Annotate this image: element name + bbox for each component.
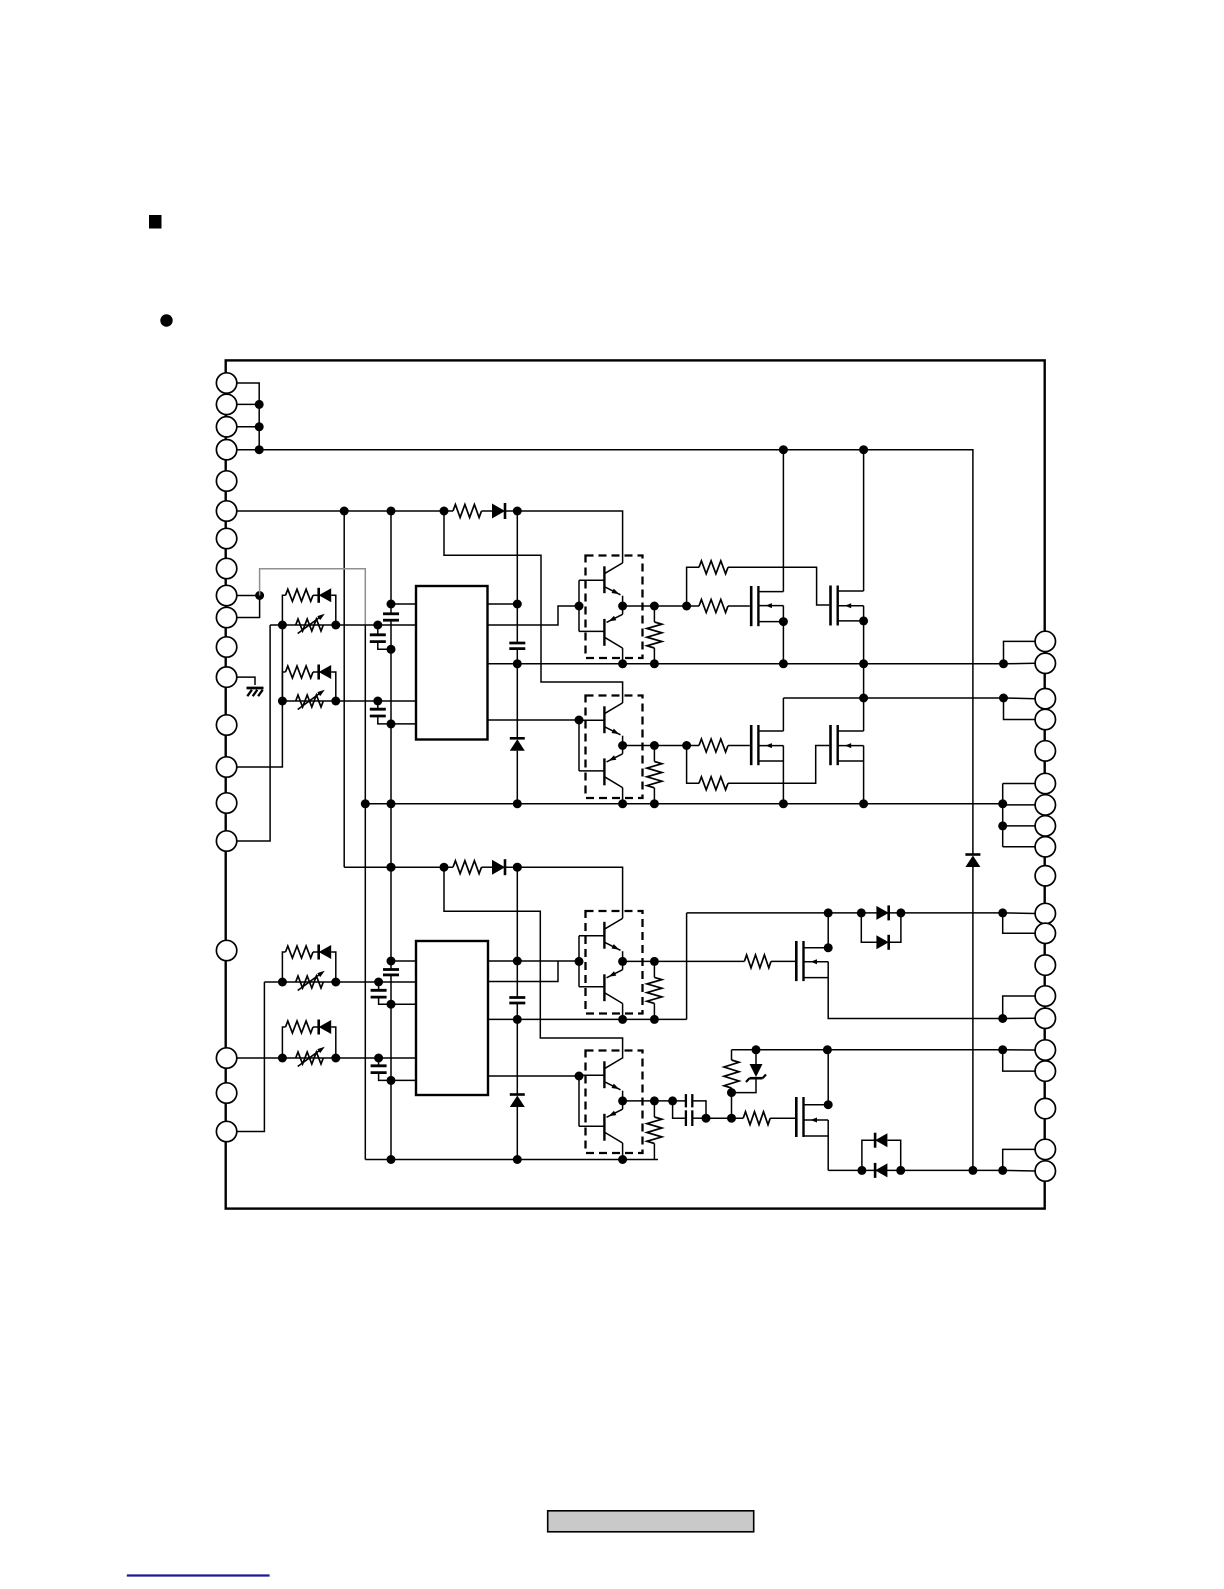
wire IC2 pin R1	[488, 960, 579, 962]
node rail1019 x622.6	[618, 1015, 627, 1024]
pin P39 right connector	[1035, 1139, 1055, 1159]
ground symbol	[247, 688, 264, 696]
resistor R14 bleed box3	[653, 961, 655, 977]
wire pin14 riser x282	[237, 625, 283, 767]
wire pin4 supply rail y450	[237, 450, 973, 854]
pin P36 right connector	[1035, 1040, 1055, 1060]
node row1170 x900.7	[896, 1166, 905, 1175]
node pin2 bus junction	[255, 400, 264, 409]
resistor R6 bleed box1	[653, 606, 655, 622]
node row913 x900.9	[896, 908, 905, 917]
node zener-res junction	[727, 1088, 736, 1097]
node supply-M2 drain junction	[859, 445, 868, 454]
section heading square bullet	[149, 215, 162, 229]
diode D12 inline row913	[876, 906, 888, 920]
node rail804 x365.3	[361, 799, 370, 808]
footer gray box	[548, 1511, 754, 1532]
node row1170 x972.9	[968, 1166, 977, 1175]
wire pin1 to bus	[237, 383, 260, 450]
wire bus to pin 783	[1003, 783, 1035, 785]
pin P10 left connector	[216, 607, 236, 627]
node out2 x687	[682, 741, 691, 750]
wire pin12 to ground	[237, 677, 255, 685]
wire IC2 pin L1	[391, 960, 416, 962]
wire VR4 right bracket	[331, 1027, 336, 1058]
resistor R3	[286, 946, 314, 958]
pin P18 left connector	[216, 1048, 236, 1068]
pin P19 left connector	[216, 1083, 236, 1103]
wire M7 drain up	[827, 1050, 829, 1105]
node out2 x654	[650, 741, 659, 750]
wire M2 drain up	[863, 450, 865, 591]
node box3 base input	[575, 957, 584, 966]
diode D14 inline row1170	[875, 1163, 887, 1177]
wire row982	[264, 981, 416, 983]
node row1170 x861.9	[857, 1166, 866, 1175]
node x391 y604	[387, 600, 396, 609]
wire phase row 698	[783, 697, 1003, 699]
node rail664 x783.4	[779, 659, 788, 668]
pin P38 right connector	[1035, 1098, 1055, 1118]
pin P35 right connector	[1035, 1008, 1055, 1028]
node VR3 right	[331, 978, 340, 987]
node out1 x622	[618, 602, 627, 611]
transistor M2 MOSFET	[831, 586, 864, 626]
node out4 x654	[650, 1096, 659, 1105]
wire gray route to x365	[260, 569, 366, 625]
wire VR3 right bracket	[331, 952, 336, 982]
node rail664 right end	[999, 659, 1008, 668]
wire riser x687 rail1019 to row913	[686, 913, 688, 1020]
transistor M6 small fet	[673, 1094, 706, 1126]
transistor Q1/Q2 PNP	[579, 606, 623, 648]
wire row1170 to pin	[1003, 1169, 1035, 1172]
wire VR4 left bracket	[282, 1027, 285, 1058]
wire M3 drain up	[782, 698, 784, 731]
transistor pair Q1/Q2 dashed box	[586, 556, 643, 659]
wire rail x391 lower	[390, 976, 392, 1160]
resistor R12 row867	[453, 861, 482, 874]
node x517b y1159.5	[513, 1155, 522, 1164]
wire row913	[687, 912, 1003, 914]
pin P28 right connector	[1035, 816, 1055, 836]
node out2 x622	[618, 741, 627, 750]
node x391 y1159.5	[387, 1155, 396, 1164]
transistor Q7/Q8 PNP	[579, 1101, 623, 1143]
transistor Q3/Q4 PNP	[579, 746, 623, 788]
transistor Q5/Q6 NPN	[579, 918, 623, 961]
wire IC2 pin R2 elbow	[488, 961, 558, 981]
wire R2-D2	[313, 671, 319, 673]
diode D9 on right supply drop	[965, 853, 980, 856]
pin P40 right connector	[1035, 1161, 1055, 1181]
arrow VR3 wiper	[298, 973, 322, 991]
pin P37 right connector	[1035, 1061, 1055, 1081]
wire M5 drain up	[827, 913, 829, 948]
node row1058 cap stub	[374, 1054, 383, 1063]
wire R17 to M7 gate	[770, 1117, 795, 1119]
node M5 drain corner	[824, 943, 833, 952]
transistor M3 MOSFET	[751, 725, 783, 765]
pin P25 right connector	[1035, 741, 1055, 761]
node row511-x444	[440, 507, 449, 516]
node x517b y1019.4	[513, 1015, 522, 1024]
wire row1170 to pin up	[1003, 1149, 1035, 1170]
node row1170 right end	[998, 1166, 1007, 1175]
node row1050 zener top	[752, 1045, 761, 1054]
node rail664 x863.6	[859, 659, 868, 668]
wire row1050 to pin	[1003, 1049, 1035, 1051]
pin P26 right connector	[1035, 773, 1055, 793]
wire M3 source down	[782, 761, 784, 804]
resistor R15 gate-source M7	[731, 1050, 733, 1060]
pin P33 right connector	[1035, 955, 1055, 975]
wire box2 collector exit	[622, 788, 624, 804]
arrow VR2 wiper	[298, 692, 322, 710]
resistor R5 row511	[453, 505, 482, 518]
diode D10	[319, 945, 332, 959]
wire x973 lower drop	[972, 867, 974, 1171]
node VR2 left	[278, 697, 287, 706]
transistor M7 MOSFET	[796, 1097, 828, 1137]
node VR4 right	[331, 1054, 340, 1063]
arrow VR4 wiper	[298, 1049, 322, 1067]
transistor M4 MOSFET	[831, 725, 864, 765]
pin P4 left connector	[216, 440, 236, 460]
resistor R9 bleed box2	[653, 746, 655, 762]
node rail804 x783.4	[779, 799, 788, 808]
pin P12 left connector	[216, 667, 236, 687]
transistor pair Q7/Q8 dashed box	[586, 1051, 643, 1154]
wire box4 output row	[623, 1100, 685, 1102]
node VR1 left	[278, 621, 287, 630]
variable resistor VR4	[296, 1052, 324, 1064]
diode D15 loop row1140	[875, 1133, 887, 1147]
capacitor C7	[378, 1058, 380, 1065]
diode D11	[319, 1020, 332, 1034]
wire rail x517 bottom upper	[516, 867, 518, 997]
wire IC1 pin L4	[391, 723, 416, 725]
variable resistor VR3	[296, 976, 324, 988]
wire D5 to box1 collector feed	[506, 511, 623, 563]
resistor R10 gate M3	[699, 739, 728, 752]
wire rail x517 mid	[516, 649, 518, 738]
diode D5 row511	[492, 504, 505, 519]
wire rail x517 low	[516, 751, 518, 804]
pin P3 left connector	[216, 417, 236, 437]
pin P2 left connector	[216, 394, 236, 414]
pin P16 left connector	[216, 831, 236, 851]
capacitor C6	[378, 982, 380, 990]
wire pin16 riser x270	[237, 625, 271, 841]
node box4 base input	[575, 1072, 584, 1081]
wire pin2 to bus	[237, 403, 260, 405]
resistor R2	[286, 666, 314, 678]
node M6 out	[702, 1114, 711, 1123]
zener diode ZD1	[732, 1050, 767, 1093]
pin P27 right connector	[1035, 795, 1055, 815]
diode D7 up	[510, 1093, 525, 1096]
node rail804 x863.6	[859, 799, 868, 808]
wire M1 source down	[782, 622, 784, 664]
node out3 x622	[618, 957, 627, 966]
pin P32 right connector	[1035, 923, 1055, 943]
node x391 y723.9	[387, 719, 396, 728]
wire R7 to M1 gate	[728, 605, 750, 607]
arrow VR1 wiper	[298, 616, 322, 634]
wire row913 to pin lower	[1003, 913, 1035, 933]
wire M4 drain up	[863, 698, 865, 731]
node supply-M1 drain junction	[779, 445, 788, 454]
transistor pair Q5/Q6 dashed box	[586, 911, 643, 1014]
node x391 y867.2	[387, 863, 396, 872]
wire VR2 left bracket	[282, 672, 285, 701]
node row701 cap stub	[373, 697, 382, 706]
variable resistor VR2	[296, 695, 324, 707]
resistor R7 gate M1	[699, 600, 728, 613]
node rail664 x654.4	[650, 659, 659, 668]
wire pin6 row y511	[237, 510, 453, 512]
node x517 y803.8	[513, 799, 522, 808]
pin P8 left connector	[216, 558, 236, 578]
wire R1-D1	[313, 594, 319, 596]
node VR3 left	[278, 978, 287, 987]
capacitor C5 in rail x391	[383, 968, 399, 971]
node rail1019 x654.4	[650, 1015, 659, 1024]
wire rail x517 bottom low	[516, 1107, 518, 1160]
wire box2 output row	[623, 745, 699, 747]
node row982 cap stub	[374, 978, 383, 987]
transistor Q1/Q2 NPN	[579, 563, 623, 606]
resistor R1	[286, 589, 314, 601]
wire VR1 right bracket	[331, 595, 336, 625]
node rail804 x622.6	[618, 799, 627, 808]
node row511-x517	[513, 507, 522, 516]
wire IC1 pin R2 to box1 base	[488, 606, 580, 625]
pin P21 right connector	[1035, 631, 1055, 651]
wire R11 to M4 gate	[728, 746, 829, 784]
wire pin9	[237, 595, 260, 597]
wire row913 to pin	[1003, 912, 1035, 915]
wire R13 to M5 gate	[771, 960, 795, 962]
variable resistor VR1	[296, 619, 324, 631]
wire VR2 right bracket	[331, 672, 336, 701]
wire bus to pin 826	[1003, 825, 1035, 827]
node x391 y649.3	[387, 645, 396, 654]
node M7 drain corner	[824, 1100, 833, 1109]
node out1 x654	[650, 602, 659, 611]
node M1 source tie	[779, 617, 788, 626]
wire pin10 elbow	[237, 596, 260, 618]
node row1018 right end	[998, 1014, 1007, 1023]
node out3 x654	[650, 957, 659, 966]
node row1050 right end	[998, 1045, 1007, 1054]
wire IC2 pin R4 to box4 base	[488, 1075, 579, 1077]
node x391 y803.8	[387, 799, 396, 808]
node row1050 M7 drain	[823, 1045, 832, 1054]
wire box2 collector feed	[444, 511, 623, 703]
wire R4-D4	[313, 1026, 319, 1028]
pin P24 right connector	[1035, 709, 1055, 729]
node out4 x673	[668, 1096, 677, 1105]
wire D6 to box3 collector feed	[506, 867, 623, 918]
capacitor C3	[377, 701, 379, 709]
wire x731 down to gate row	[731, 1093, 733, 1119]
wire row867	[344, 866, 453, 868]
node row913 right end	[998, 908, 1007, 917]
wire IC1 pin L1	[391, 603, 416, 605]
wire rail664 to pin R2	[1004, 662, 1036, 665]
pin P23 right connector	[1035, 689, 1055, 709]
diode D1	[319, 588, 332, 602]
resistor R11 gate M4	[699, 777, 728, 790]
wire rail x344	[343, 511, 345, 867]
wire row1018 to pin	[1003, 1017, 1035, 1019]
wire Q7/Q8 base tie	[578, 1075, 580, 1126]
node row698 M4 drain	[859, 694, 868, 703]
transistor M5 MOSFET	[796, 941, 828, 981]
node VR1 right	[331, 621, 340, 630]
node out1 x687	[682, 602, 691, 611]
diode D2	[319, 665, 332, 679]
wire M2 source down	[863, 621, 865, 698]
wire rail x391 mid	[390, 621, 392, 969]
resistor R16 bleed box4	[653, 1101, 655, 1117]
wire box1 collector exit	[622, 648, 624, 664]
wire VR3 left bracket	[282, 952, 285, 982]
node rail1160 x622	[618, 1155, 627, 1164]
capacitor C1 in rail x391	[383, 612, 399, 615]
pin P15 left connector	[216, 793, 236, 813]
node rail804 x654.4	[650, 799, 659, 808]
pin P14 left connector	[216, 757, 236, 777]
wire bus to pin 805	[1003, 804, 1035, 806]
wire R5 to D5	[482, 510, 493, 512]
wire IC2 pin L3	[391, 1003, 416, 1005]
wire box4 collector feed	[444, 867, 623, 1058]
node x391 y1080.4	[387, 1076, 396, 1085]
node row511-x391	[387, 507, 396, 516]
pin P22 right connector	[1035, 653, 1055, 673]
pin P31 right connector	[1035, 903, 1055, 923]
wire D15 loop	[862, 1140, 875, 1170]
node row867-x517	[513, 863, 522, 872]
wire row625	[270, 624, 416, 626]
resistor R4	[286, 1021, 314, 1033]
node row913 x828.2	[824, 908, 833, 917]
wire M7 source down	[827, 1136, 829, 1170]
capacitor C8 in rail x517	[509, 996, 525, 999]
wire rail x365	[364, 625, 366, 1160]
wire row1050	[732, 1049, 1003, 1051]
wire rail y1160	[365, 1159, 658, 1161]
transistor pair Q3/Q4 dashed box	[586, 696, 643, 799]
pin P17 left connector	[216, 940, 236, 960]
wire rail y1019	[488, 1018, 687, 1020]
node VR2 right	[331, 697, 340, 706]
node VR4 left	[278, 1054, 287, 1063]
wire rail x517 bottom mid	[516, 1004, 518, 1095]
node rail804 right end	[998, 799, 1007, 808]
diode D6 row867	[492, 860, 505, 875]
transistor Q7/Q8 NPN	[579, 1058, 623, 1101]
node out4 x622	[618, 1096, 627, 1105]
pin P11 left connector	[216, 637, 236, 657]
wire M4 source down	[863, 761, 865, 804]
node x517b y867.2	[513, 863, 522, 872]
IC U2 control block	[416, 941, 488, 1095]
circuit boundary box	[226, 360, 1045, 1208]
node row625 cap stub	[373, 621, 382, 630]
node x391 y1004.2	[387, 1000, 396, 1009]
node row867-x391	[387, 863, 396, 872]
node gate row x731	[727, 1114, 736, 1123]
wire box3 output row	[623, 960, 745, 962]
wire Q3/Q4 base tie	[578, 720, 580, 771]
wire IC1 pin R1	[488, 603, 518, 605]
wire R10 to M3 gate	[728, 745, 750, 747]
wire rail y804	[365, 803, 1002, 805]
wire row698 to pin R3	[1004, 697, 1036, 700]
pin P29 right connector	[1035, 837, 1055, 857]
wire row701	[282, 700, 416, 702]
diode D3 up	[510, 737, 525, 740]
wire R8 to M2 gate	[728, 567, 829, 605]
node box1 base input	[575, 602, 584, 611]
wire row1058	[237, 1057, 416, 1059]
node row698 right end	[999, 694, 1008, 703]
footer navy rule	[127, 1574, 270, 1576]
wire pin20 riser x264	[237, 982, 265, 1132]
wire IC1 pin R4 to box2 base	[488, 719, 580, 721]
wire box4 collector exit	[622, 1143, 624, 1160]
wire box1 output row	[623, 605, 699, 607]
resistor R17 gate M7	[743, 1112, 770, 1125]
wire Q1/Q2 base tie	[578, 580, 580, 631]
capacitor C4 in rail x517	[509, 642, 525, 645]
node rail664 x622.6	[618, 659, 627, 668]
wire row698 to pin R4	[1004, 698, 1036, 720]
pin P34 right connector	[1035, 986, 1055, 1006]
diode D13 loop row942	[876, 935, 888, 949]
transistor Q5/Q6 PNP	[579, 961, 623, 1003]
wire rail y664	[488, 663, 1004, 665]
resistor R8 gate M2	[699, 561, 728, 574]
pin P1 left connector	[216, 373, 236, 393]
pin P7 left connector	[216, 528, 236, 548]
node bus y826	[998, 821, 1007, 830]
pin P5 left connector	[216, 471, 236, 491]
wire gate elbow M2 upper	[687, 567, 699, 606]
list bullet	[160, 314, 172, 326]
node x391 y961	[387, 957, 396, 966]
pin P30 right connector	[1035, 866, 1055, 886]
wire bus to pin 847	[1003, 846, 1035, 848]
resistor R13 gate M5	[744, 955, 771, 968]
node x517 y604	[513, 600, 522, 609]
wire row1050 to pin lower	[1003, 1050, 1035, 1071]
wire box3 collector exit	[622, 1004, 624, 1020]
wire right bus x1003 group2	[1002, 784, 1004, 847]
wire rail664 to pin R1	[1004, 641, 1036, 663]
wire pin3 to bus	[237, 426, 260, 428]
transistor M1 MOSFET	[751, 586, 783, 626]
wire gate row 1118	[706, 1117, 743, 1119]
node box2 base input	[575, 716, 584, 725]
node pin3 bus junction	[255, 422, 264, 431]
node x517b y961	[513, 957, 522, 966]
wire M5 source down to row1018	[828, 978, 1003, 1019]
